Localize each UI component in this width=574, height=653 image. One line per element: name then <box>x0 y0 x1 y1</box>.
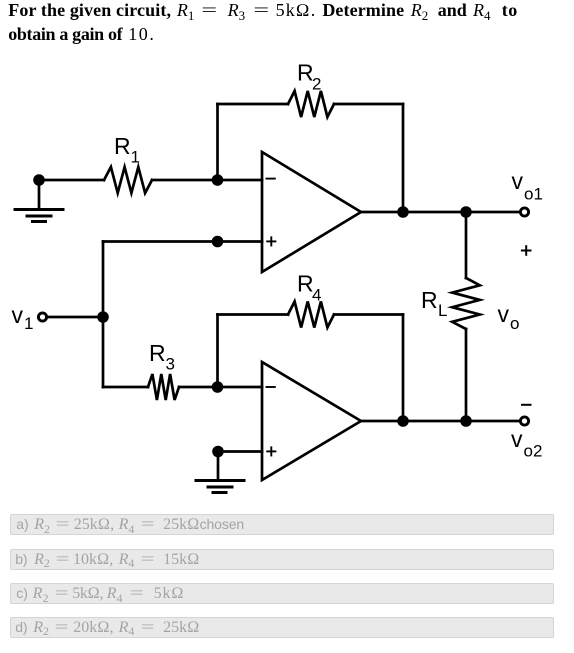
question text line 1 <box>9 0 518 21</box>
wire R4 feedback top right <box>334 313 403 316</box>
wire R4 feedback left vertical <box>216 315 219 388</box>
label vo <box>498 301 520 333</box>
terminal vo2 <box>520 417 528 425</box>
node: U2 inverting input dot <box>212 381 224 393</box>
svg-text:2: 2 <box>312 75 321 94</box>
svg-text:v: v <box>12 302 24 328</box>
svg-text:R: R <box>114 133 131 159</box>
label vo1 <box>512 168 543 204</box>
resistor R3 <box>148 374 179 400</box>
wire R2 feedback left vertical <box>216 104 219 180</box>
U1 minus pin label <box>267 178 275 180</box>
resistor R4 <box>288 302 334 328</box>
wire ground to R1 <box>39 179 104 182</box>
option b <box>10 549 554 570</box>
wire R2 feedback top left <box>218 103 289 106</box>
U2 minus pin label <box>267 386 275 388</box>
svg-text:1: 1 <box>24 314 33 333</box>
question text line 2 <box>9 24 156 45</box>
wire R4 feedback top left <box>218 313 289 316</box>
wire R4 feedback right vertical <box>402 315 405 422</box>
wire RL top <box>465 212 468 278</box>
wire R3 to op-amp U2 minus <box>179 386 262 389</box>
node: U2 plus input dot <box>212 446 224 458</box>
svg-text:v: v <box>511 426 523 452</box>
node: U1 output feedback dot <box>397 206 409 218</box>
wire RL bottom <box>465 329 468 421</box>
terminal v1 <box>38 313 46 321</box>
wire to R3 <box>103 386 148 389</box>
wire R2 feedback top right <box>334 103 403 106</box>
terminal vo1 <box>520 208 528 216</box>
label plus polarity <box>522 246 531 255</box>
ground G2 <box>196 452 244 493</box>
wire R1 to op-amp U1 minus <box>152 179 262 182</box>
option c <box>10 583 554 604</box>
svg-text:1: 1 <box>131 148 140 167</box>
wire v1 to junction <box>46 316 103 319</box>
svg-text:o2: o2 <box>524 442 543 461</box>
svg-text:R: R <box>149 340 166 366</box>
ground G1 <box>15 180 63 222</box>
op-amp U2 <box>262 362 361 480</box>
option d <box>10 617 554 638</box>
label minus polarity <box>522 404 531 406</box>
wire v1 vertical <box>102 242 105 388</box>
svg-text:3: 3 <box>166 355 175 374</box>
svg-text:v: v <box>498 301 510 327</box>
label R3 <box>149 340 175 374</box>
node: U2 output feedback dot <box>397 415 409 427</box>
node: RL bottom dot <box>460 415 472 427</box>
label v1 <box>12 302 34 333</box>
node: U1 plus input dot <box>212 236 224 248</box>
node: v1 junction dot <box>97 311 109 323</box>
label RL <box>421 287 447 320</box>
svg-text:4: 4 <box>312 286 321 305</box>
svg-text:o: o <box>510 314 519 333</box>
wire U2 output <box>361 420 520 423</box>
node: RL top dot <box>460 206 472 218</box>
svg-text:L: L <box>438 301 447 320</box>
wire R2 feedback right vertical <box>402 104 405 212</box>
U1 plus pin label <box>267 237 275 245</box>
wire U1 plus input row <box>103 240 262 243</box>
resistor R1 <box>104 167 152 193</box>
op-amp U1 <box>262 152 361 272</box>
wire U2 plus input <box>218 450 262 453</box>
svg-text:o1: o1 <box>524 185 543 204</box>
svg-text:R: R <box>421 287 438 313</box>
node: U1 inverting input dot <box>212 174 224 186</box>
label R4 <box>297 271 321 305</box>
label R2 <box>297 60 321 94</box>
label vo2 <box>511 426 542 461</box>
U2 plus pin label <box>267 447 275 455</box>
resistor RL <box>452 278 480 329</box>
label R1 <box>114 133 140 167</box>
node: ground junction dot <box>33 174 45 186</box>
wire U1 output <box>361 211 520 214</box>
svg-text:v: v <box>512 168 524 194</box>
resistor R2 <box>288 91 334 117</box>
option a <box>10 514 554 535</box>
